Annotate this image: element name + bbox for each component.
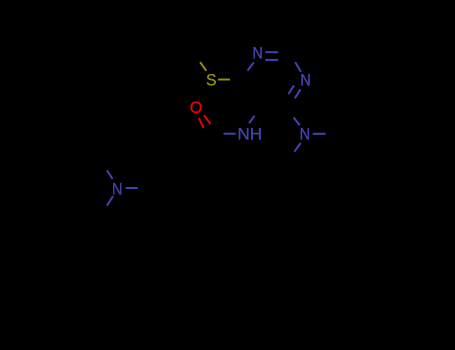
wire N3=C4 double bond inner line (288, 85, 294, 94)
wire N1=C2 double bond outer half (265, 51, 278, 53)
wire N1=C2 double bond inner half (265, 59, 278, 61)
svg-text:NH: NH (238, 125, 263, 144)
wire O=C double bond axis half (204, 115, 210, 124)
wire N-CH3 right bond half (313, 133, 326, 135)
wire S-C6 bond half (218, 79, 230, 81)
wire N-CH3 lower bond half (294, 143, 300, 152)
svg-text:N: N (300, 71, 311, 90)
wire S-CH3 bond half (200, 62, 206, 71)
wire N-C(ring) bond half (126, 187, 138, 189)
svg-text:N: N (300, 125, 311, 144)
wire O=C double bond offset line (199, 118, 204, 128)
svg-text:N: N (252, 44, 263, 63)
wire N-C4 bond half (294, 118, 300, 126)
wire C2-N3 bond half (295, 62, 301, 72)
wire NH-C5 bond half (249, 116, 255, 124)
wire N-CH3 lower-left bond half (107, 196, 113, 206)
wire N1-C6 bond half (248, 62, 254, 70)
svg-text:S: S (206, 70, 217, 89)
svg-text:N: N (112, 179, 123, 198)
svg-text:O: O (190, 98, 203, 117)
wire NH-C(=O) bond half (224, 133, 236, 135)
wire N-CH3 upper-left bond half (107, 170, 113, 179)
wire N3=C4 double bond axis half (295, 89, 301, 98)
